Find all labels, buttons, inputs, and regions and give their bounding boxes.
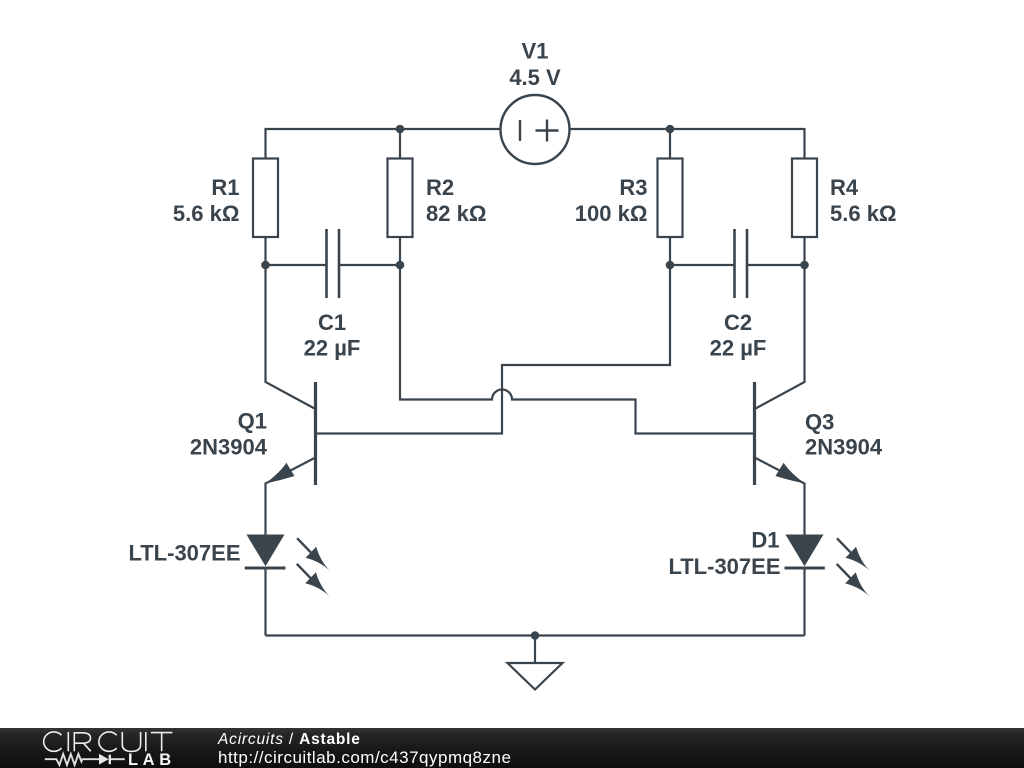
svg-text:R2: R2 <box>426 175 454 200</box>
svg-text:R1: R1 <box>211 175 239 200</box>
svg-text:R3: R3 <box>619 175 647 200</box>
svg-text:LAB: LAB <box>128 751 176 768</box>
svg-text:22 µF: 22 µF <box>304 336 361 361</box>
svg-text:100 kΩ: 100 kΩ <box>575 201 648 226</box>
svg-text:C1: C1 <box>318 310 346 335</box>
svg-text:Q1: Q1 <box>238 409 267 434</box>
svg-text:D1: D1 <box>751 528 779 553</box>
svg-text:http://circuitlab.com/c437qypm: http://circuitlab.com/c437qypmq8zne <box>218 748 511 767</box>
svg-text:5.6 kΩ: 5.6 kΩ <box>830 201 897 226</box>
svg-text:C2: C2 <box>724 310 752 335</box>
svg-text:LTL-307EE: LTL-307EE <box>128 541 240 566</box>
svg-text:Q3: Q3 <box>805 410 834 435</box>
svg-text:V1: V1 <box>522 39 549 64</box>
svg-text:22 µF: 22 µF <box>710 336 767 361</box>
svg-text:2N3904: 2N3904 <box>805 435 883 460</box>
svg-text:LTL-307EE: LTL-307EE <box>668 554 780 579</box>
svg-text:5.6 kΩ: 5.6 kΩ <box>173 201 240 226</box>
svg-text:4.5 V: 4.5 V <box>509 65 561 90</box>
svg-text:82 kΩ: 82 kΩ <box>426 201 486 226</box>
svg-text:Acircuits / Astable: Acircuits / Astable <box>217 731 361 748</box>
svg-text:2N3904: 2N3904 <box>190 435 268 460</box>
svg-text:R4: R4 <box>830 175 859 200</box>
